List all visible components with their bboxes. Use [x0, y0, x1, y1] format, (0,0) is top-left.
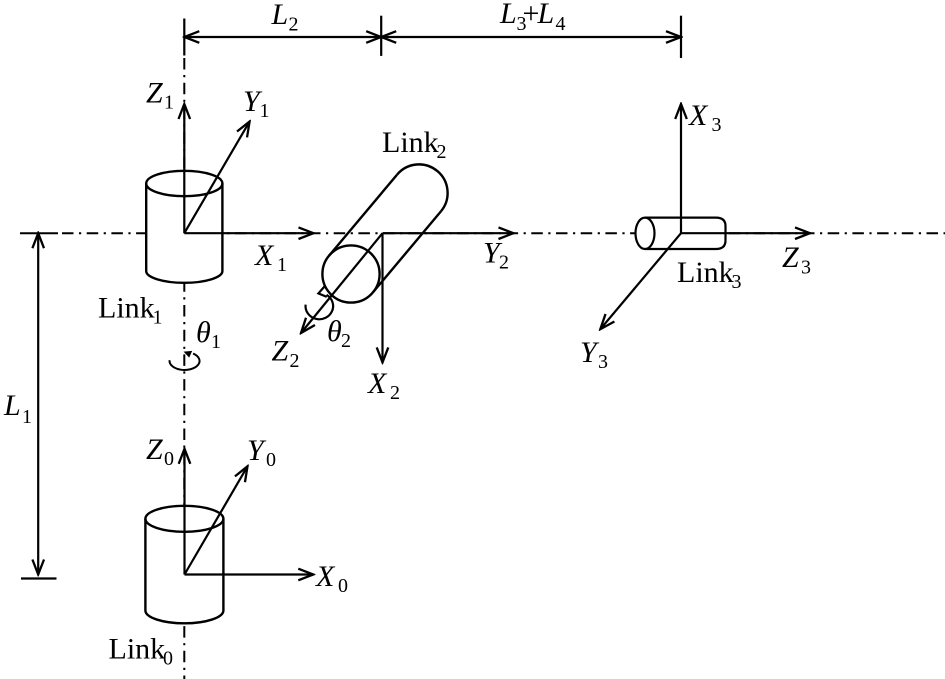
svg-text:4: 4	[556, 13, 566, 35]
svg-text:0: 0	[338, 575, 348, 597]
svg-text:3: 3	[712, 114, 722, 136]
svg-text:1: 1	[211, 331, 221, 353]
svg-text:Z: Z	[146, 433, 163, 466]
svg-text:1: 1	[22, 406, 32, 428]
svg-text:0: 0	[163, 648, 173, 670]
svg-text:L: L	[3, 389, 21, 422]
svg-text:Link: Link	[677, 256, 734, 289]
svg-text:Link: Link	[98, 292, 155, 325]
svg-text:1: 1	[153, 307, 163, 329]
svg-text:L: L	[271, 0, 289, 31]
svg-text:X: X	[367, 367, 388, 400]
svg-text:X: X	[254, 239, 275, 272]
svg-text:2: 2	[341, 330, 351, 352]
svg-text:2: 2	[289, 14, 299, 36]
svg-text:Link: Link	[382, 126, 439, 159]
svg-text:Z: Z	[272, 335, 289, 368]
svg-text:2: 2	[290, 350, 300, 372]
svg-text:3: 3	[801, 257, 811, 279]
svg-text:2: 2	[437, 141, 447, 163]
svg-text:3: 3	[732, 271, 742, 293]
svg-text:Z: Z	[782, 241, 799, 274]
svg-text:Z: Z	[146, 77, 163, 110]
svg-text:θ: θ	[327, 315, 342, 348]
svg-text:1: 1	[277, 254, 287, 276]
svg-text:Link: Link	[109, 633, 166, 666]
svg-text:1: 1	[260, 100, 270, 122]
svg-text:X: X	[688, 99, 709, 132]
svg-text:L: L	[499, 0, 517, 30]
svg-text:3: 3	[598, 351, 608, 373]
svg-text:X: X	[315, 560, 336, 593]
svg-text:2: 2	[499, 251, 509, 273]
svg-text:1: 1	[164, 92, 174, 114]
svg-text:θ: θ	[196, 316, 211, 349]
svg-text:0: 0	[266, 449, 276, 471]
svg-text:L: L	[537, 0, 555, 30]
svg-text:2: 2	[390, 382, 400, 404]
svg-text:0: 0	[164, 448, 174, 470]
